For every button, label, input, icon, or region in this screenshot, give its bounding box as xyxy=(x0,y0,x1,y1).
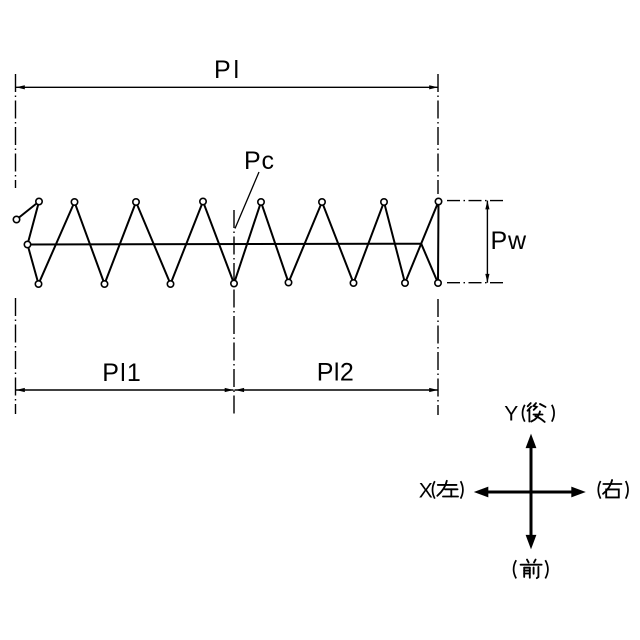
label X(左) xyxy=(419,479,463,502)
leader line Pc xyxy=(235,172,259,229)
Pw extension top (dash-dot) xyxy=(447,200,503,202)
spring zigzag wire xyxy=(17,202,439,285)
Pw extension bottom (dash-dot) xyxy=(447,282,503,284)
axis X arrow (compass horizontal) xyxy=(474,487,586,498)
extension line right (dash-dot) xyxy=(437,74,439,415)
label (前) xyxy=(514,560,548,579)
label (右) xyxy=(598,480,628,499)
svg-text:X: X xyxy=(419,479,433,502)
svg-text:Pl1: Pl1 xyxy=(102,359,141,387)
extension line left (dash-dot) xyxy=(15,74,17,414)
label Y(後) xyxy=(504,403,554,426)
svg-text:Pc: Pc xyxy=(244,147,274,175)
spring mid wire xyxy=(28,243,422,246)
spring end half-coil (junction to right bottom end) xyxy=(421,244,438,283)
spring joint circles xyxy=(13,198,441,287)
svg-text:Pl2: Pl2 xyxy=(317,359,354,387)
svg-text:Y: Y xyxy=(504,403,518,426)
svg-text:Pw: Pw xyxy=(491,227,527,255)
dimension line Pw xyxy=(485,201,489,283)
center line Pc (dash-dot vertical) xyxy=(233,210,235,415)
dimension line Pl1 xyxy=(16,388,234,392)
axis Y arrow (compass vertical) xyxy=(526,434,537,550)
dimension line Pl2 xyxy=(235,388,439,392)
svg-text:Pl: Pl xyxy=(214,56,239,84)
dimension line Pl xyxy=(16,85,438,89)
